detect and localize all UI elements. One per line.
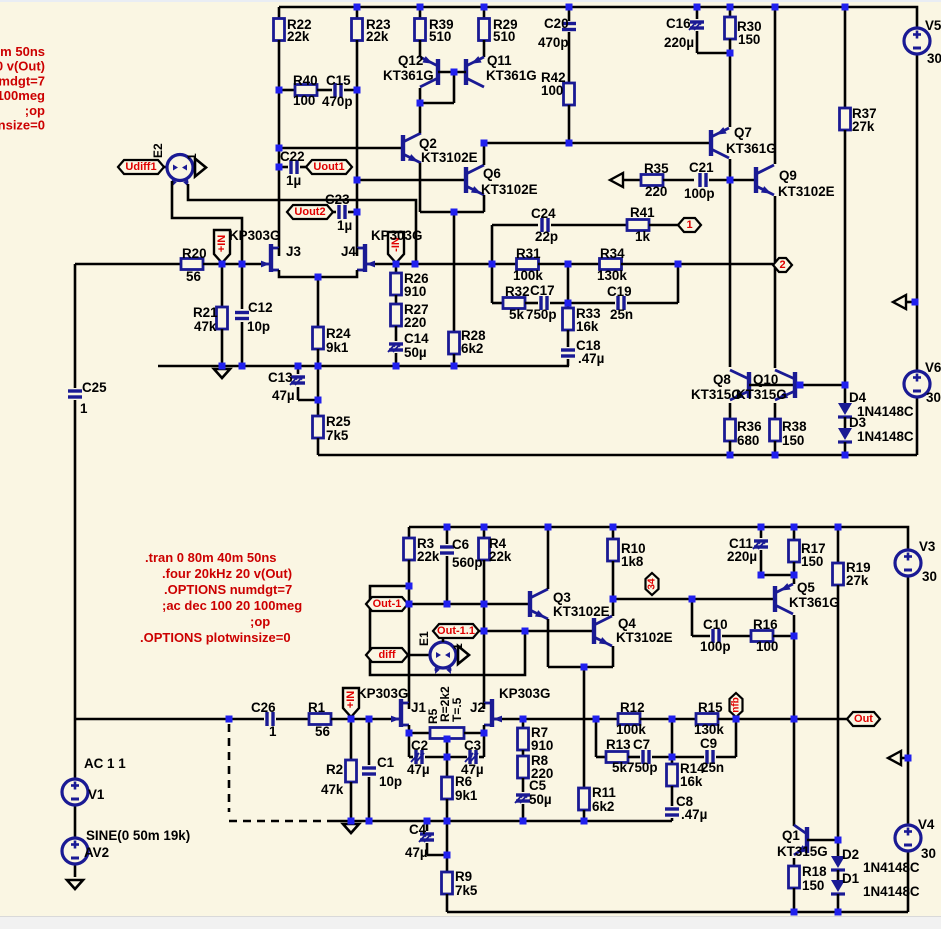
svg-text:220: 220 (645, 184, 667, 199)
svg-text:R36: R36 (737, 419, 762, 434)
svg-text:V6: V6 (925, 360, 941, 375)
svg-text:22k: 22k (287, 29, 310, 44)
svg-text:1: 1 (451, 643, 465, 650)
svg-text:+IN: +IN (216, 235, 228, 252)
svg-text:1N4148C: 1N4148C (863, 860, 920, 875)
svg-text:R1: R1 (308, 700, 326, 715)
svg-text:C1: C1 (377, 755, 395, 770)
svg-text:47k: 47k (321, 782, 344, 797)
svg-text:130k: 130k (597, 268, 627, 283)
svg-text:C14: C14 (404, 331, 429, 346)
svg-text:E2: E2 (151, 143, 165, 158)
svg-text:.four 20kHz 20 v(Out): .four 20kHz 20 v(Out) (0, 59, 45, 74)
svg-text:7k5: 7k5 (326, 428, 349, 443)
svg-text:510: 510 (493, 29, 515, 44)
svg-text:1: 1 (80, 401, 88, 416)
svg-text:V1: V1 (88, 787, 105, 802)
svg-text:J4: J4 (341, 244, 356, 259)
svg-text:1µ: 1µ (337, 218, 352, 233)
svg-text:KP303G: KP303G (357, 686, 408, 701)
svg-text:47µ: 47µ (405, 845, 428, 860)
svg-text:5k: 5k (509, 307, 524, 322)
svg-text:R34: R34 (600, 246, 625, 261)
svg-text:KP303G: KP303G (371, 228, 422, 243)
svg-text:R21: R21 (193, 305, 218, 320)
svg-text:47µ: 47µ (272, 388, 295, 403)
svg-text:1µ: 1µ (286, 173, 301, 188)
svg-text:R25: R25 (326, 414, 351, 429)
svg-text:47µ: 47µ (407, 762, 430, 777)
svg-text:Out-1.1: Out-1.1 (437, 625, 475, 637)
svg-text:150: 150 (738, 32, 760, 47)
svg-text:D4: D4 (849, 390, 867, 405)
svg-text:220µ: 220µ (727, 549, 757, 564)
svg-text:R15: R15 (698, 700, 723, 715)
svg-text:25n: 25n (610, 307, 633, 322)
svg-text:1k8: 1k8 (621, 554, 644, 569)
svg-text:16k: 16k (680, 774, 703, 789)
svg-text:100: 100 (541, 83, 563, 98)
svg-text:Out: Out (854, 713, 873, 725)
svg-text:50µ: 50µ (529, 792, 552, 807)
svg-text:C6: C6 (452, 537, 469, 552)
svg-text:56: 56 (315, 724, 330, 739)
svg-text:10p: 10p (247, 319, 270, 334)
svg-text:6k2: 6k2 (592, 799, 614, 814)
svg-text:C23: C23 (325, 192, 350, 207)
svg-text:.tran 0 80m 40m 50ns: .tran 0 80m 40m 50ns (145, 550, 277, 565)
svg-text:Q12: Q12 (398, 53, 423, 68)
svg-text:6k2: 6k2 (461, 341, 483, 356)
svg-text:150: 150 (802, 878, 824, 893)
svg-text:KT361G: KT361G (789, 595, 840, 610)
svg-text:100p: 100p (684, 186, 715, 201)
svg-text:27k: 27k (846, 573, 869, 588)
svg-text:KT3102E: KT3102E (778, 184, 835, 199)
svg-text:R2: R2 (326, 762, 343, 777)
svg-text:C4: C4 (409, 822, 427, 837)
svg-text:;ac dec 100 20 100meg: ;ac dec 100 20 100meg (0, 88, 45, 103)
svg-text:Uout2: Uout2 (294, 206, 325, 218)
svg-text:.OPTIONS numdgt=7: .OPTIONS numdgt=7 (0, 73, 45, 88)
svg-text:C24: C24 (531, 206, 556, 221)
svg-text:C9: C9 (700, 736, 717, 751)
svg-text:470p: 470p (538, 35, 569, 50)
svg-text:Q6: Q6 (483, 166, 501, 181)
svg-text:220µ: 220µ (664, 35, 694, 50)
svg-text:C3: C3 (464, 738, 481, 753)
svg-text:560p: 560p (452, 555, 483, 570)
svg-text:KT3102E: KT3102E (553, 604, 610, 619)
svg-text:J3: J3 (286, 244, 301, 259)
svg-text:910: 910 (404, 284, 426, 299)
svg-text:R35: R35 (644, 161, 669, 176)
svg-text:Q1: Q1 (782, 828, 800, 843)
svg-text:V3: V3 (919, 539, 935, 554)
svg-text:130k: 130k (694, 722, 724, 737)
svg-text:Q10: Q10 (753, 372, 778, 387)
svg-text:D1: D1 (842, 871, 860, 886)
svg-text:C20: C20 (544, 16, 569, 31)
svg-text:100: 100 (756, 639, 778, 654)
svg-text:22k: 22k (417, 549, 440, 564)
svg-text:C19: C19 (607, 284, 632, 299)
svg-text:100k: 100k (616, 722, 646, 737)
svg-text:C5: C5 (529, 778, 547, 793)
svg-text:.four 20kHz 20 v(Out): .four 20kHz 20 v(Out) (162, 566, 292, 581)
svg-text:KT315G: KT315G (777, 844, 828, 859)
svg-text:R24: R24 (326, 326, 351, 341)
svg-text:470p: 470p (322, 94, 353, 109)
svg-text:R32: R32 (505, 284, 530, 299)
svg-text:1N4148C: 1N4148C (857, 429, 914, 444)
svg-text:2: 2 (779, 259, 785, 271)
svg-text:Q2: Q2 (419, 136, 437, 151)
svg-text:C26: C26 (251, 700, 276, 715)
svg-text:510: 510 (429, 29, 451, 44)
svg-text:1N4148C: 1N4148C (863, 884, 920, 899)
svg-text:KT3102E: KT3102E (421, 150, 478, 165)
svg-text:AC 1 1: AC 1 1 (84, 756, 126, 771)
svg-text:R31: R31 (516, 246, 541, 261)
svg-text:750p: 750p (526, 307, 557, 322)
svg-text:J1: J1 (411, 700, 426, 715)
svg-text:KT3102E: KT3102E (481, 182, 538, 197)
svg-text:KT361G: KT361G (383, 68, 434, 83)
svg-text:.tran 0 80m 40m 50ns: .tran 0 80m 40m 50ns (0, 44, 45, 59)
svg-text:R13: R13 (606, 737, 631, 752)
svg-text:47k: 47k (194, 319, 217, 334)
svg-text:KT315G: KT315G (736, 387, 787, 402)
svg-text:C13: C13 (268, 370, 293, 385)
svg-text:Q7: Q7 (734, 125, 752, 140)
svg-text:.OPTIONS plotwinsize=0: .OPTIONS plotwinsize=0 (0, 118, 45, 133)
svg-text:Q11: Q11 (487, 53, 512, 68)
svg-text:Q4: Q4 (618, 616, 636, 631)
svg-text:Uout1: Uout1 (313, 161, 344, 173)
svg-text:C10: C10 (703, 617, 728, 632)
svg-text:.47µ: .47µ (578, 351, 604, 366)
svg-text:750p: 750p (627, 760, 658, 775)
svg-text:R6: R6 (455, 774, 472, 789)
svg-text:D2: D2 (842, 847, 859, 862)
svg-text:KP303G: KP303G (499, 686, 550, 701)
svg-text:150: 150 (782, 433, 804, 448)
svg-text:Q8: Q8 (713, 372, 731, 387)
svg-text:150: 150 (801, 554, 823, 569)
svg-text:9k1: 9k1 (455, 788, 478, 803)
svg-text:C12: C12 (248, 300, 273, 315)
svg-text:E1: E1 (417, 631, 431, 646)
svg-text:100p: 100p (700, 639, 731, 654)
svg-text:Out-1: Out-1 (373, 598, 402, 610)
svg-text:KP303G: KP303G (229, 228, 280, 243)
svg-text:Udiff1: Udiff1 (125, 161, 156, 173)
svg-text:100: 100 (293, 93, 315, 108)
svg-text:C7: C7 (633, 737, 650, 752)
svg-text:.OPTIONS plotwinsize=0: .OPTIONS plotwinsize=0 (140, 630, 291, 645)
svg-text:.47µ: .47µ (681, 807, 707, 822)
svg-text:Q9: Q9 (779, 168, 797, 183)
svg-text:SINE(0 50m 19k): SINE(0 50m 19k) (86, 828, 190, 843)
svg-text:56: 56 (186, 269, 201, 284)
svg-text:C16: C16 (666, 16, 691, 31)
svg-text:R38: R38 (782, 419, 807, 434)
svg-text:C17: C17 (530, 283, 555, 298)
svg-text:AV2: AV2 (84, 845, 109, 860)
svg-text:V4: V4 (918, 817, 935, 832)
svg-text:R18: R18 (802, 864, 827, 879)
svg-text:R16: R16 (753, 617, 778, 632)
svg-text:680: 680 (737, 433, 759, 448)
svg-text:30: 30 (927, 51, 941, 66)
svg-text:R11: R11 (592, 785, 616, 800)
svg-text:9k1: 9k1 (326, 340, 349, 355)
svg-text:1k: 1k (635, 229, 650, 244)
svg-text:22k: 22k (489, 549, 512, 564)
svg-text:nfb: nfb (731, 697, 742, 713)
svg-text:34: 34 (647, 578, 658, 590)
svg-text:1: 1 (185, 153, 199, 160)
svg-text:R12: R12 (620, 700, 645, 715)
svg-text:KT3102E: KT3102E (616, 630, 673, 645)
svg-text:C2: C2 (411, 738, 428, 753)
svg-text:R40: R40 (293, 73, 318, 88)
svg-text:KT361G: KT361G (726, 141, 777, 156)
svg-text:C22: C22 (280, 149, 305, 164)
svg-text:;ac dec 100 20 100meg: ;ac dec 100 20 100meg (162, 598, 302, 613)
svg-text:D3: D3 (849, 415, 866, 430)
svg-text:30: 30 (926, 390, 941, 405)
svg-text:Q3: Q3 (553, 590, 571, 605)
svg-text:C21: C21 (689, 160, 714, 175)
svg-text:V5: V5 (925, 18, 941, 33)
svg-text:1: 1 (269, 724, 277, 739)
svg-text:16k: 16k (576, 319, 599, 334)
svg-text:+IN: +IN (345, 691, 357, 708)
svg-text:R9: R9 (455, 869, 472, 884)
svg-text:22k: 22k (366, 29, 389, 44)
svg-text:22p: 22p (535, 229, 558, 244)
svg-text:910: 910 (531, 738, 553, 753)
svg-text:27k: 27k (852, 119, 875, 134)
svg-text:50µ: 50µ (404, 345, 427, 360)
svg-text:30: 30 (921, 846, 936, 861)
svg-text:KT315G: KT315G (691, 387, 742, 402)
svg-text:220: 220 (404, 315, 426, 330)
svg-text:10p: 10p (379, 774, 402, 789)
svg-text:R41: R41 (630, 205, 655, 220)
svg-text:diff: diff (378, 649, 395, 661)
svg-text:.OPTIONS numdgt=7: .OPTIONS numdgt=7 (164, 582, 292, 597)
svg-text:T=.5: T=.5 (450, 697, 464, 722)
svg-text:;op: ;op (250, 614, 270, 629)
svg-text:30: 30 (922, 569, 937, 584)
svg-text:7k5: 7k5 (455, 883, 478, 898)
svg-text:;op: ;op (25, 103, 45, 118)
svg-text:J2: J2 (470, 700, 485, 715)
svg-text:1: 1 (686, 219, 692, 231)
svg-text:C25: C25 (82, 380, 107, 395)
svg-text:5k: 5k (612, 760, 627, 775)
svg-text:Q5: Q5 (797, 580, 815, 595)
svg-text:C15: C15 (326, 73, 351, 88)
svg-text:KT361G: KT361G (486, 68, 537, 83)
svg-text:100k: 100k (513, 268, 543, 283)
svg-text:R20: R20 (182, 246, 207, 261)
